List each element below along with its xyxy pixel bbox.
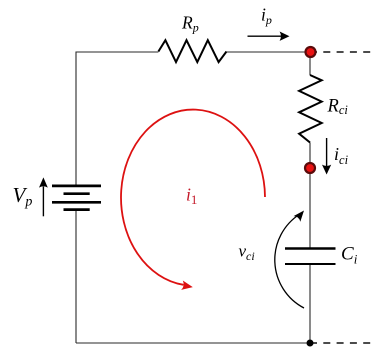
resistor R_ci	[299, 75, 322, 143]
capacitor C_i	[285, 249, 336, 265]
voltage arrow V_p	[42, 187, 44, 217]
current arrow i_ci	[326, 138, 328, 167]
wire top-right horizontal (R_p to node)	[227, 51, 311, 53]
loop current arrow i1 (red)	[121, 110, 265, 285]
node bottom-right (black)	[307, 340, 314, 347]
node mid-right (red)	[305, 163, 315, 173]
wire bottom horizontal	[76, 342, 310, 344]
dashed wire top right	[310, 51, 371, 53]
wire right vertical (node to C_i)	[309, 168, 311, 248]
dashed wire bottom right	[310, 342, 371, 344]
wire right vertical (C_i to bottom node)	[309, 265, 311, 344]
voltage arrow v_ci (curved)	[275, 214, 304, 308]
wire left vertical lower (battery to corner)	[75, 210, 77, 343]
resistor R_p	[158, 40, 226, 62]
wire top-left horizontal (corner to R_p)	[76, 51, 158, 53]
wire left vertical upper (corner to battery)	[75, 52, 77, 187]
battery V_p	[52, 186, 101, 210]
wire right vertical (node to R_ci)	[309, 52, 311, 75]
node top-right (red)	[306, 47, 316, 57]
current arrow i_p	[248, 35, 282, 37]
wire right vertical (R_ci to node)	[309, 143, 311, 169]
